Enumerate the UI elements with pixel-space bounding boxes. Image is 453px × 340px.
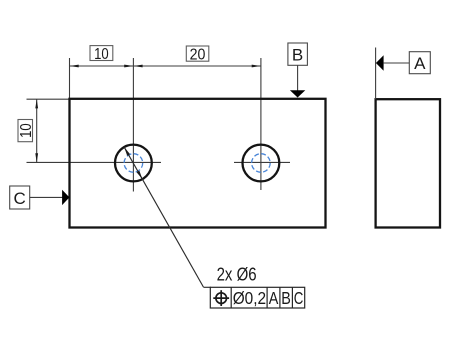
extension line above plate left corner [69, 58, 71, 99]
svg-text:A: A [414, 54, 426, 73]
datum C triangle [62, 190, 69, 205]
svg-text:10: 10 [18, 123, 35, 138]
dimension text box 20 (top) [186, 46, 209, 61]
leader / diameter line through hole 1 [124, 147, 203, 287]
svg-text:C: C [14, 189, 26, 208]
dimension text box 10 (top) [90, 46, 113, 61]
hole 2 [243, 145, 280, 182]
datum C box [10, 186, 30, 209]
leader arrowhead upper [124, 147, 130, 156]
hole 2 tolerance zone (blue dashed) [252, 154, 271, 173]
hole 1 [115, 145, 152, 182]
datum B box [288, 43, 308, 65]
centerline vertical hole 2 (also extension line for dim 20) [260, 58, 262, 190]
hole 1 tolerance zone (blue dashed) [124, 154, 143, 173]
svg-text:B: B [292, 45, 303, 64]
datum B leader [297, 65, 299, 90]
svg-text:Ø0,2: Ø0,2 [233, 288, 266, 308]
extension line left of plate top edge [27, 98, 70, 100]
centerline horizontal hole 1 (also extension line for vertical dim 10) [27, 161, 162, 163]
dimension line 20 (top, right segment) [133, 65, 261, 67]
datum A extension line [375, 48, 377, 100]
plate front view [70, 99, 326, 228]
svg-text:C: C [294, 288, 304, 308]
svg-text:B: B [281, 288, 291, 308]
svg-text:A: A [269, 288, 279, 308]
plate side view [376, 99, 440, 227]
dimension line 10 (top, left segment) [70, 65, 134, 67]
svg-text:2x Ø6: 2x Ø6 [217, 265, 257, 285]
datum A leader [384, 62, 410, 64]
dimension text box 10 (vertical, rotated) [18, 120, 35, 142]
datum A triangle [376, 55, 384, 70]
centerline vertical hole 1 (also extension line for dims 10/20) [132, 58, 134, 192]
position symbol [216, 293, 227, 304]
svg-text:20: 20 [190, 46, 206, 63]
centerline horizontal hole 2 [234, 161, 290, 163]
datum B triangle [290, 90, 305, 97]
leader arrowhead lower [137, 171, 143, 180]
svg-text:10: 10 [94, 46, 109, 63]
datum A box [409, 52, 430, 74]
dimension line 10 (vertical, left) [36, 99, 38, 162]
feature control frame box [210, 287, 304, 308]
datum C leader [30, 196, 63, 198]
leader shoulder [203, 286, 211, 288]
